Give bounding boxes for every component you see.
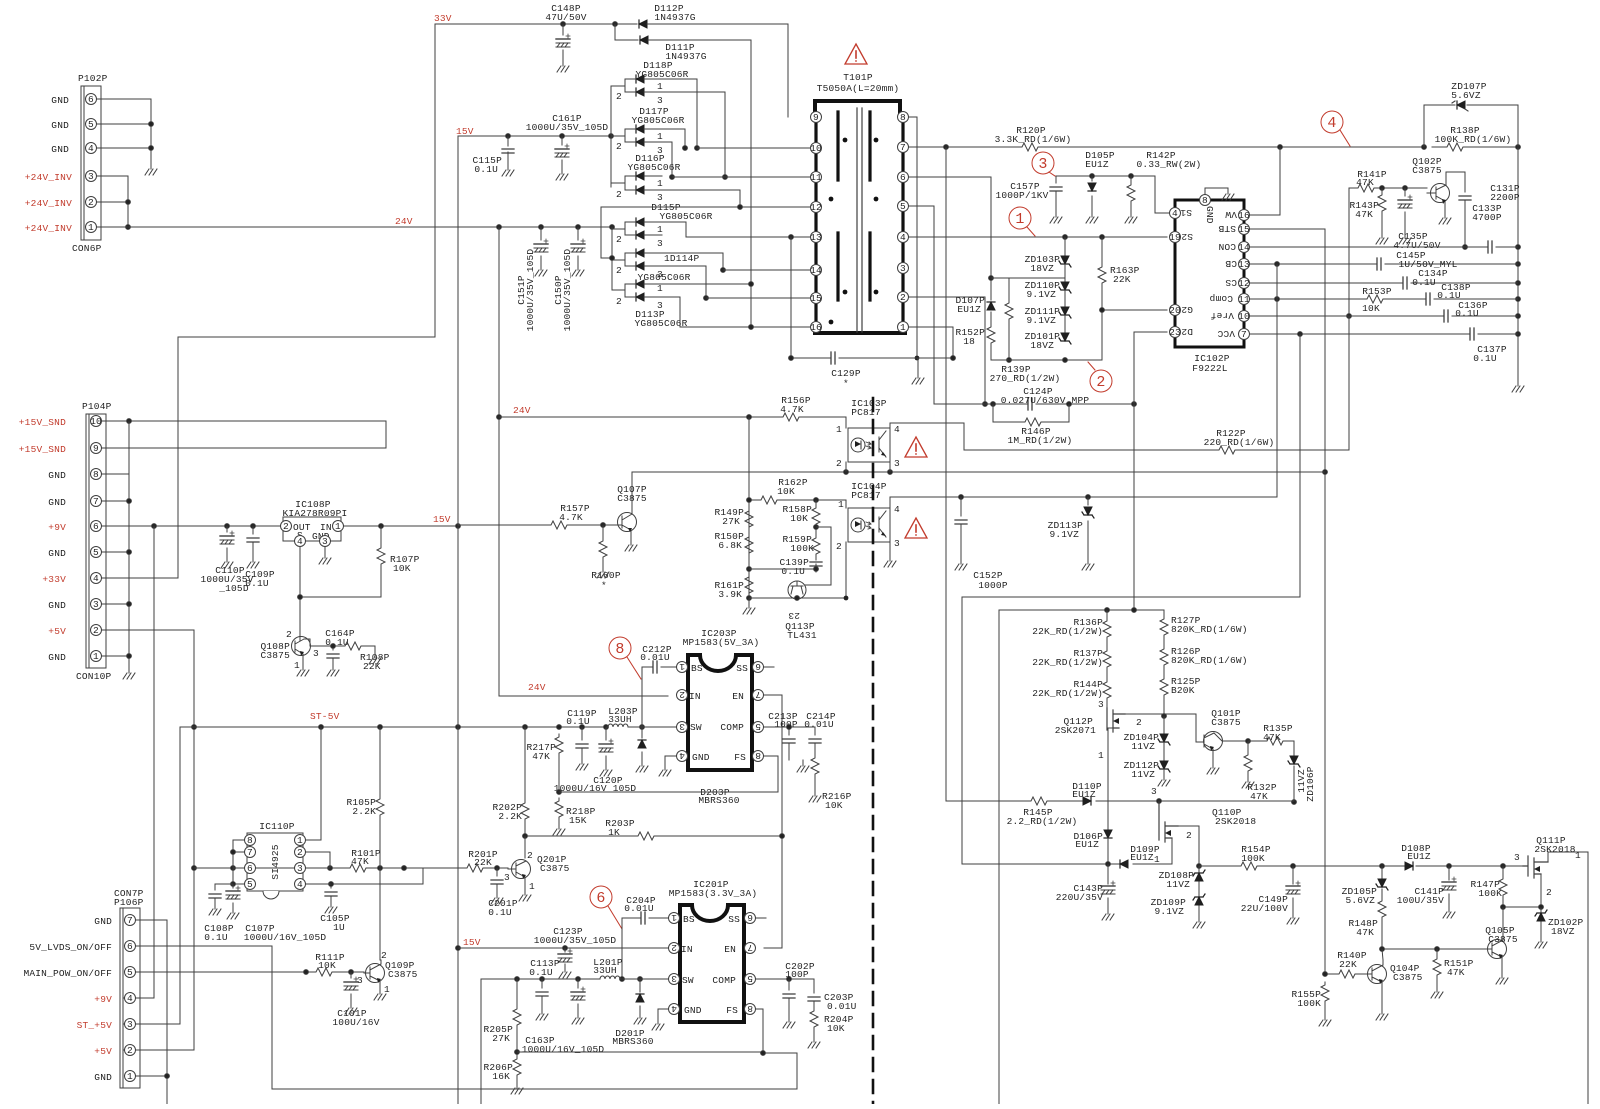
ground D203P: [636, 760, 648, 772]
svg-text:GND: GND: [51, 95, 69, 106]
svg-text:IC110P: IC110P: [259, 821, 295, 832]
svg-text:10K: 10K: [827, 1023, 845, 1034]
pin S1 IC102P: [1170, 207, 1193, 219]
wire COMP line IC201P: [756, 977, 814, 982]
svg-text:BS: BS: [691, 663, 703, 674]
svg-text:9.1VZ: 9.1VZ: [1154, 906, 1184, 917]
ground C113P: [536, 1008, 548, 1020]
svg-text:GND: GND: [684, 1005, 702, 1016]
ground IC104P pin3: [884, 542, 896, 567]
resistor R217P: [526, 734, 563, 792]
zener ZD101P: [1025, 315, 1071, 351]
svg-text:4: 4: [127, 993, 133, 1004]
svg-text:*: *: [601, 580, 607, 591]
svg-text:5: 5: [755, 721, 761, 732]
svg-text:GND: GND: [51, 120, 69, 131]
resistor R145P: [1007, 797, 1078, 827]
svg-text:COMP: COMP: [712, 975, 736, 986]
ground P102P: [145, 163, 157, 175]
resistor R203P: [605, 818, 657, 840]
svg-text:2: 2: [286, 629, 292, 640]
capacitor C101P: [332, 972, 379, 1028]
svg-text:+15V_SND: +15V_SND: [19, 444, 66, 455]
pin IC110P r1: [295, 835, 322, 847]
svg-text:GND: GND: [1204, 206, 1215, 224]
pin G2 IC102P: [1169, 304, 1193, 316]
pin CON IC102P: [1218, 241, 1250, 253]
svg-text:CB: CB: [1225, 258, 1237, 269]
capacitor C107P: [226, 884, 326, 943]
svg-text:C3875: C3875: [1393, 972, 1423, 983]
svg-text:47K: 47K: [532, 751, 550, 762]
converter IC201P MP1583 body: [669, 879, 758, 1022]
capacitor C152P: [955, 497, 1008, 591]
svg-text:FS: FS: [726, 1005, 738, 1016]
ground C201P: [491, 892, 503, 904]
svg-text:1: 1: [1098, 750, 1104, 761]
wire R120P drop feed: [945, 147, 947, 801]
svg-text:IN: IN: [689, 691, 701, 702]
capacitor C202P: [783, 961, 815, 1016]
pin 7 P106P: [125, 915, 136, 927]
resistor R122P: [964, 428, 1349, 454]
svg-text:2: 2: [1546, 887, 1552, 898]
svg-text:8: 8: [93, 469, 99, 480]
svg-text:2.2K: 2.2K: [498, 811, 522, 822]
svg-text:1000U/35V_105D: 1000U/35V_105D: [562, 249, 573, 332]
ground ZD113P: [1082, 558, 1094, 570]
wire IN to 15V: [344, 524, 460, 529]
svg-text:19: 19: [1169, 232, 1181, 243]
pin BS IC203P: [677, 661, 688, 673]
resistor R143P: [1349, 188, 1386, 232]
svg-text:8: 8: [755, 750, 761, 761]
capacitor C204P: [622, 895, 668, 979]
svg-text:D2: D2: [1181, 326, 1193, 337]
svg-text:270_RD(1/2W): 270_RD(1/2W): [990, 373, 1061, 384]
pin FS IC201P: [745, 1003, 756, 1015]
svg-text:2: 2: [1136, 717, 1142, 728]
connector P106P CON7P: [114, 888, 144, 1088]
svg-text:2: 2: [616, 296, 622, 307]
pin 7 P104P: [91, 496, 102, 508]
capacitor C105P: [320, 882, 350, 933]
svg-text:820K_RD(1/6W): 820K_RD(1/6W): [1171, 624, 1248, 635]
svg-text:1: 1: [1575, 850, 1581, 861]
svg-text:EU1Z: EU1Z: [1085, 159, 1109, 170]
svg-text:7: 7: [247, 847, 253, 858]
svg-text:8: 8: [747, 1003, 753, 1014]
svg-text:4.7K: 4.7K: [780, 404, 804, 415]
svg-text:14: 14: [810, 265, 822, 276]
transistor Q105P: [1475, 907, 1518, 972]
svg-text:6: 6: [88, 94, 94, 105]
resistor R125P: [1160, 668, 1201, 716]
pin 4 P106P: [125, 993, 136, 1005]
svg-text:0.1U: 0.1U: [1455, 308, 1479, 319]
svg-text:7: 7: [747, 942, 753, 953]
svg-text:10K: 10K: [1362, 303, 1380, 314]
wire S2 line pin4: [909, 235, 1167, 240]
capacitor C143P: [1056, 864, 1115, 908]
resistor R206P: [483, 1028, 521, 1082]
svg-text:2: 2: [616, 265, 622, 276]
svg-text:16: 16: [1238, 210, 1250, 221]
svg-text:2.2_RD(1/2W): 2.2_RD(1/2W): [1007, 816, 1078, 827]
svg-text:47K: 47K: [1356, 177, 1374, 188]
svg-text:YG805C06R: YG805C06R: [627, 162, 680, 173]
ground IC201P gnd pin: [652, 1009, 668, 1030]
capacitor C138P on Comp line: [1426, 282, 1471, 305]
zener ZD111P: [1025, 290, 1071, 326]
svg-text:1: 1: [679, 661, 685, 672]
ground R143P: [1376, 232, 1388, 244]
pin CB IC102P: [1225, 258, 1250, 270]
pin SW IC201P: [669, 973, 680, 985]
pin 4 T101P: [898, 232, 909, 244]
ground P104P: [123, 667, 135, 679]
wire +15V_SND bridge: [102, 419, 386, 448]
svg-text:5: 5: [93, 547, 99, 558]
svg-text:6: 6: [93, 521, 99, 532]
ground D201P: [634, 1012, 646, 1024]
wire EN feedback y836: [523, 695, 785, 948]
pin 6 T101P: [898, 172, 909, 184]
wire 15V to R157P: [458, 524, 548, 526]
ground R132P: [1242, 776, 1254, 788]
svg-text:100K: 100K: [1478, 888, 1502, 899]
ground C152P: [955, 558, 967, 570]
pin 1 IC108P: [333, 521, 344, 533]
wire zener stack bottom to G2: [991, 308, 1167, 363]
svg-text:33V: 33V: [434, 13, 452, 24]
svg-text:4: 4: [671, 1003, 677, 1014]
svg-text:0.1U: 0.1U: [1412, 277, 1436, 288]
svg-text:12: 12: [810, 202, 822, 213]
wire R156P line 24V to opto: [499, 415, 846, 423]
zener ZD108P: [1159, 864, 1205, 890]
capacitor C214P: [804, 711, 836, 755]
warning triangle T101P: [845, 44, 867, 64]
capacitor C148P: [545, 3, 586, 60]
pin 5 P106P: [125, 967, 136, 979]
svg-text:11: 11: [1238, 294, 1250, 305]
node 3 circle: [1032, 152, 1055, 176]
pin EN IC201P: [745, 942, 756, 954]
svg-text:1: 1: [671, 912, 677, 923]
svg-text:4: 4: [1327, 115, 1336, 132]
svg-text:23: 23: [788, 610, 800, 621]
ground ZD109P: [1193, 916, 1205, 928]
pin 2 P106P: [125, 1045, 136, 1057]
svg-text:2: 2: [88, 197, 94, 208]
capacitor C136P on Vref line: [1250, 300, 1518, 322]
svg-text:1N4937G: 1N4937G: [654, 12, 695, 23]
junction ZD106P bottom: [1292, 800, 1297, 805]
pin Comp IC102P: [1209, 293, 1250, 305]
svg-text:3: 3: [504, 872, 510, 883]
svg-text:FS: FS: [734, 752, 746, 763]
svg-text:3: 3: [657, 95, 663, 106]
svg-text:11VZ: 11VZ: [1131, 769, 1155, 780]
svg-text:24V: 24V: [395, 216, 413, 227]
svg-text:3: 3: [357, 975, 363, 986]
wire pin6 to D107P: [909, 177, 991, 278]
svg-text:9: 9: [813, 112, 819, 123]
svg-text:+9V: +9V: [94, 994, 112, 1005]
optocoupler IC104P: [836, 481, 900, 555]
wire P102P GND pins to ground: [97, 99, 153, 163]
svg-text:MAIN_POW_ON/OFF: MAIN_POW_ON/OFF: [23, 968, 112, 979]
svg-text:ST-5V: ST-5V: [310, 711, 340, 722]
ground C143P: [1102, 908, 1114, 920]
svg-text:0.1U: 0.1U: [488, 907, 512, 918]
svg-text:100K: 100K: [1241, 853, 1265, 864]
zener ZD103P: [1025, 237, 1071, 274]
svg-text:5: 5: [747, 973, 753, 984]
svg-text:EN: EN: [724, 944, 736, 955]
svg-text:VW: VW: [1225, 209, 1237, 220]
pin IC110P l1: [233, 835, 256, 847]
svg-text:100U/35V: 100U/35V: [1397, 895, 1444, 906]
svg-text:5.6VZ: 5.6VZ: [1345, 895, 1375, 906]
pin IC110P l4: [233, 879, 256, 891]
wire ST-5V rail: [124, 725, 644, 1024]
wire IC104P pin4 line y497: [890, 495, 1277, 503]
capacitor C151P: [516, 227, 548, 331]
transistor Q107P: [617, 472, 647, 539]
wire +24V_INV bus: [97, 176, 130, 229]
pin 4 P102P: [86, 143, 97, 155]
diode D201P: [612, 979, 653, 1047]
svg-text:22K_RD(1/2W): 22K_RD(1/2W): [1032, 688, 1103, 699]
pin 2 T101P: [898, 292, 909, 304]
svg-text:2: 2: [297, 847, 303, 858]
pin 3 P104P: [91, 599, 102, 611]
svg-text:3: 3: [671, 973, 677, 984]
svg-text:2: 2: [900, 292, 906, 303]
ground R160P: [597, 566, 609, 578]
ground C135P: [1399, 232, 1411, 244]
svg-text:MBRS360: MBRS360: [698, 795, 739, 806]
svg-text:4: 4: [1172, 208, 1178, 219]
wire base line y949: [1380, 947, 1475, 952]
capacitor C133P: [1459, 172, 1502, 249]
svg-text:1000U/35V_105D: 1000U/35V_105D: [526, 122, 609, 133]
wire +9V drop: [124, 526, 154, 998]
wire 24V rail to diode bank: [97, 225, 614, 230]
svg-text:IN: IN: [681, 944, 693, 955]
ground C141P: [1443, 906, 1455, 918]
svg-text:2: 2: [93, 625, 99, 636]
switcher IC110P SI4925: [247, 821, 303, 899]
diode D108P: [1401, 843, 1431, 870]
junction TL431 anode: [844, 596, 849, 601]
svg-text:SS: SS: [728, 914, 740, 925]
transformer T101P: [815, 72, 905, 333]
svg-text:GND: GND: [94, 1072, 112, 1083]
transistor Q101P: [1204, 708, 1251, 762]
svg-text:3: 3: [88, 171, 94, 182]
capacitor C163P: [522, 979, 605, 1055]
zener ZD112P: [1124, 742, 1170, 780]
svg-text:24V: 24V: [528, 682, 546, 693]
diode D112P: [639, 3, 788, 117]
wire drain to Q101P base: [1164, 714, 1204, 742]
resistor R127P: [1160, 610, 1248, 638]
svg-text:220U/35V: 220U/35V: [1056, 892, 1103, 903]
svg-text:3: 3: [93, 599, 99, 610]
pin 1 P102P: [86, 222, 97, 234]
wire D2 drop: [1134, 332, 1167, 610]
svg-text:4: 4: [679, 750, 685, 761]
svg-text:2: 2: [283, 521, 289, 532]
pin SW IC203P: [677, 721, 688, 733]
ground Q104P: [1376, 1008, 1388, 1020]
net labels P106P: [23, 916, 112, 1083]
resistor R120P: [995, 125, 1072, 155]
pin 2 P104P: [91, 625, 102, 637]
resistor R141P: [1355, 169, 1387, 192]
ground C150P: [572, 264, 584, 276]
wire Q112P source drop: [1107, 740, 1109, 830]
resistor R135P: [1248, 723, 1294, 755]
pin 2 P102P: [86, 197, 97, 209]
svg-text:27K: 27K: [492, 1033, 510, 1044]
svg-text:4: 4: [894, 424, 900, 435]
pin 5 P102P: [86, 119, 97, 131]
diode D109P: [1120, 844, 1160, 868]
wire 15V top rail: [458, 134, 613, 139]
svg-text:EU1Z: EU1Z: [1072, 789, 1096, 800]
svg-text:100P: 100P: [774, 719, 798, 730]
pin 7 T101P: [898, 142, 909, 154]
svg-text:0.01U: 0.01U: [804, 719, 834, 730]
svg-text:2.2K: 2.2K: [352, 806, 376, 817]
wire pin5 to C124P: [909, 206, 934, 404]
svg-text:EU1Z: EU1Z: [1075, 839, 1099, 850]
capacitor C131P on CON line: [1250, 183, 1520, 253]
pin IC110P l3: [233, 863, 256, 875]
ground R108P: [369, 652, 381, 664]
capacitor C213P: [764, 711, 815, 760]
ground R151P: [1431, 986, 1443, 998]
ground Q101P: [1207, 762, 1219, 774]
ground Q107P: [625, 539, 637, 551]
mosfet Q110P: [1151, 786, 1256, 866]
svg-text:14: 14: [1238, 242, 1250, 253]
pin IC110P r4: [295, 868, 424, 890]
diode pair D114P: [616, 249, 700, 280]
svg-text:1: 1: [335, 521, 341, 532]
svg-text:2: 2: [1186, 830, 1192, 841]
svg-text:0.1U: 0.1U: [474, 164, 498, 175]
svg-text:KIA278R09PI: KIA278R09PI: [283, 508, 348, 519]
diode pair D118P: [616, 60, 689, 106]
svg-text:1D114P: 1D114P: [664, 253, 700, 264]
regulator IC108P: [283, 499, 348, 542]
svg-text:5V_LVDS_ON/OFF: 5V_LVDS_ON/OFF: [29, 942, 112, 953]
svg-text:23: 23: [1169, 327, 1181, 338]
svg-text:10K: 10K: [790, 513, 808, 524]
svg-text:10K: 10K: [393, 563, 411, 574]
svg-text:CON10P: CON10P: [76, 671, 112, 682]
wire transformer pin10: [697, 147, 810, 149]
wire transformer pin12: [601, 205, 810, 261]
wire opto drive line y472: [632, 470, 1325, 475]
wire 24V drop to IC203P: [497, 227, 668, 696]
pin 9 P104P: [91, 443, 102, 455]
resistor R149P: [714, 507, 753, 530]
wire C157P snubber top: [1056, 174, 1170, 213]
svg-text:S2: S2: [1181, 231, 1193, 242]
svg-text:4.7K: 4.7K: [559, 512, 583, 523]
resistor R160P: [591, 525, 621, 591]
resistor R107P: [300, 526, 420, 597]
svg-text:47K: 47K: [1250, 791, 1268, 802]
wire IC110P left bus: [231, 840, 236, 886]
svg-text:+24V_INV: +24V_INV: [25, 172, 72, 183]
pin 6 P104P: [91, 521, 102, 533]
mosfet Q111P: [1501, 835, 1588, 909]
ground C151P: [535, 264, 547, 276]
ground C164P: [327, 664, 339, 676]
ground C213P: [797, 760, 809, 772]
svg-text:1: 1: [657, 131, 663, 142]
svg-text:0.1U: 0.1U: [204, 932, 228, 943]
pin SS IC201P: [745, 912, 756, 924]
svg-text:YG805C06R: YG805C06R: [637, 272, 690, 283]
zener ZD107P: [1424, 81, 1518, 147]
capacitor C164P: [325, 628, 355, 664]
wire diode bank mesh: [662, 79, 753, 329]
wire FS IC203P to R218P node: [559, 756, 778, 792]
svg-text:1: 1: [127, 1071, 133, 1082]
pin 3 P106P: [125, 1019, 136, 1031]
svg-text:YG805C06R: YG805C06R: [635, 69, 688, 80]
svg-text:7: 7: [93, 496, 99, 507]
svg-text:16K: 16K: [492, 1071, 510, 1082]
pin 13 T101P: [810, 232, 822, 244]
svg-text:3: 3: [1151, 786, 1157, 797]
resistor R140P: [1323, 950, 1367, 978]
warning triangle IC103P: [905, 437, 927, 457]
svg-text:2SK2018: 2SK2018: [1215, 816, 1256, 827]
svg-text:15V: 15V: [463, 937, 481, 948]
diode pair D113P: [616, 272, 691, 329]
resistor R159P: [782, 525, 820, 557]
pin 9 T101P: [811, 112, 822, 124]
svg-text:6.8K: 6.8K: [718, 540, 742, 551]
svg-text:7: 7: [1241, 329, 1247, 340]
resistor R132P: [1244, 741, 1277, 802]
svg-text:22K_RD(1/2W): 22K_RD(1/2W): [1032, 626, 1103, 637]
svg-text:C3875: C3875: [260, 650, 290, 661]
node 1 circle: [1009, 207, 1035, 236]
resistor R146P: [993, 404, 1072, 446]
resistor R152P: [955, 324, 995, 360]
pin 14 T101P: [810, 265, 822, 277]
svg-text:47K: 47K: [351, 856, 369, 867]
svg-text:3: 3: [1514, 852, 1520, 863]
svg-text:F9222L: F9222L: [1192, 363, 1228, 374]
ground Q109P: [374, 988, 386, 1000]
svg-text:7: 7: [127, 915, 133, 926]
capacitor C141P: [1397, 866, 1456, 906]
pin 5 P104P: [91, 547, 102, 559]
ground C157P: [1050, 211, 1062, 223]
svg-text:0.1U: 0.1U: [781, 566, 805, 577]
